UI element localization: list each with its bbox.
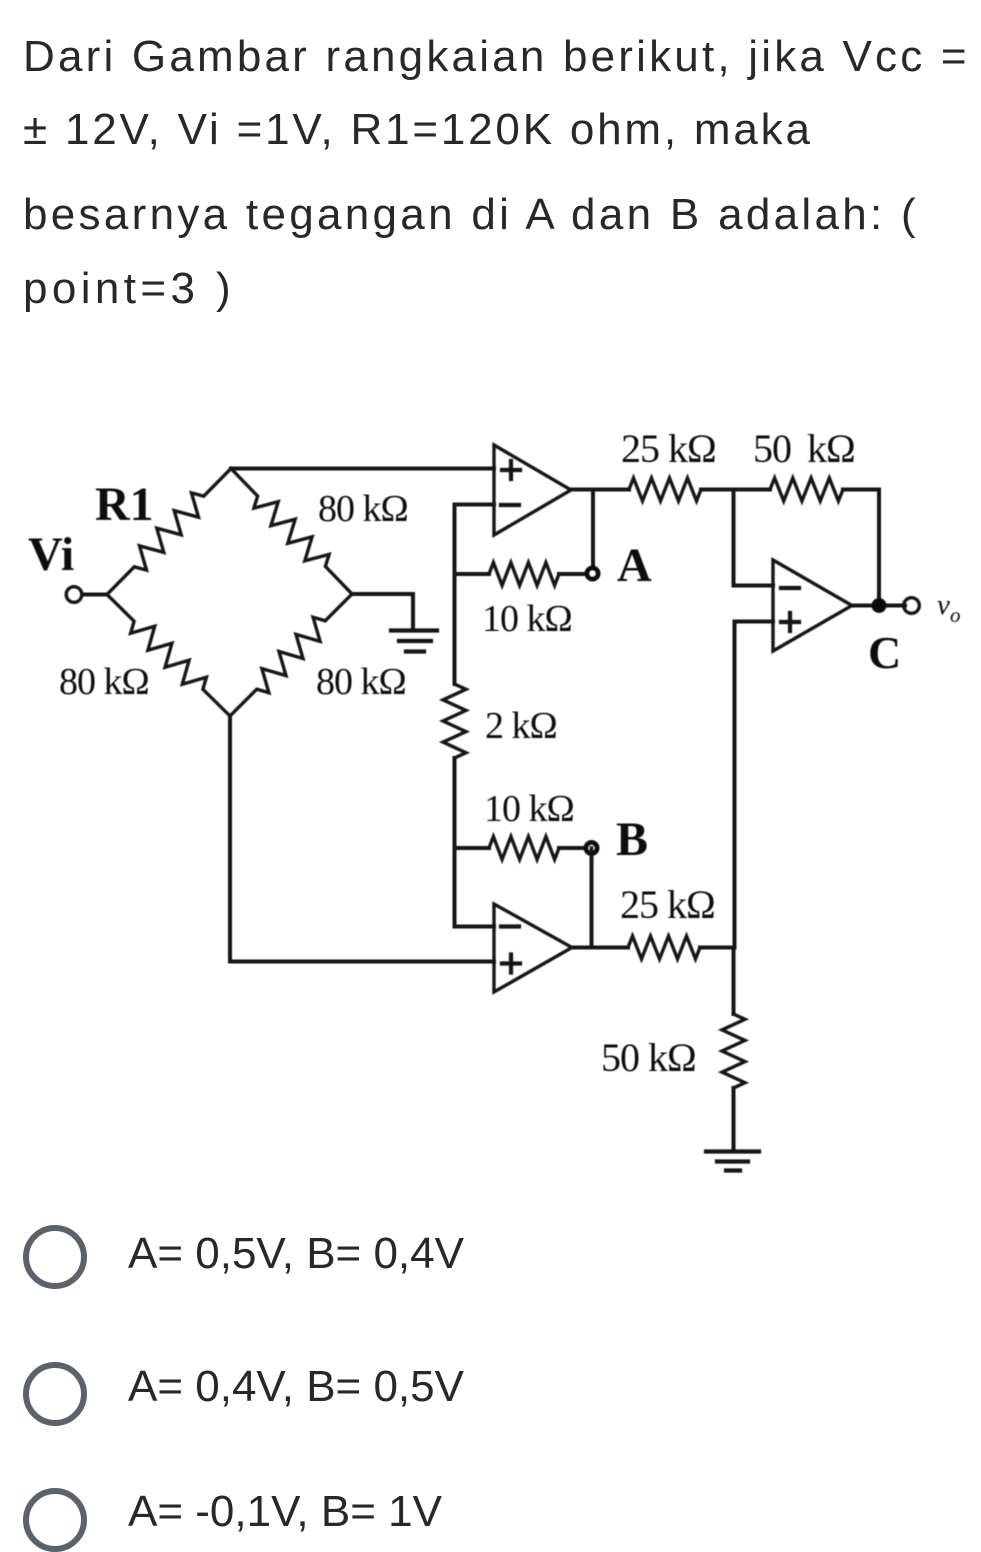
wire U3 + input down to bottom junction bbox=[735, 622, 774, 948]
U1 plus sign bbox=[502, 468, 520, 472]
input terminal Vi (open circle) bbox=[66, 587, 82, 603]
svg-text:R1: R1 bbox=[95, 478, 154, 531]
svg-text:C: C bbox=[868, 627, 901, 678]
svg-text:v: v bbox=[937, 589, 950, 621]
wire bridge top vertex to op-amp U1 + input bbox=[231, 467, 494, 471]
svg-text:25 kΩ: 25 kΩ bbox=[621, 426, 716, 471]
svg-text:B: B bbox=[616, 813, 648, 866]
wire 25k to 50k junction bbox=[701, 488, 770, 492]
U1 minus sign bbox=[501, 503, 519, 507]
U3 plus sign bbox=[781, 620, 799, 624]
svg-text:Vi: Vi bbox=[28, 528, 74, 581]
svg-text:80 kΩ: 80 kΩ bbox=[316, 661, 406, 703]
U3 minus sign bbox=[781, 586, 799, 590]
resistor 80 kOhm (bridge lower-left arm) bbox=[107, 595, 230, 717]
resistor 25 kOhm (bottom) bbox=[628, 936, 700, 959]
wire 50k to ground bbox=[732, 1088, 736, 1150]
svg-text:o: o bbox=[950, 603, 961, 627]
op-amp U3 (output stage C) bbox=[773, 560, 852, 651]
wire 2k down to 10k row B bbox=[453, 758, 457, 848]
svg-text:A: A bbox=[617, 539, 652, 592]
question line 4 bbox=[23, 264, 235, 314]
wire 10k column down to U2 - input bbox=[455, 848, 495, 927]
radio option 2 bbox=[23, 1362, 87, 1426]
wire U2 output bbox=[572, 946, 628, 950]
node B (test point) bbox=[584, 840, 600, 856]
svg-text:50 kΩ: 50 kΩ bbox=[601, 1035, 696, 1080]
wire bridge right vertex to ground bbox=[352, 594, 413, 629]
wire node B down to U2 output bbox=[590, 848, 594, 948]
resistor 80 kOhm (bridge lower-right arm) bbox=[230, 594, 352, 716]
svg-text:80 kΩ: 80 kΩ bbox=[59, 661, 149, 703]
resistor 2 kOhm (vertical) bbox=[443, 684, 466, 758]
wire U1 output down to node A bbox=[591, 490, 595, 567]
op-amp U2 (bottom buffer) bbox=[494, 904, 572, 992]
ground (bridge) bbox=[391, 628, 437, 632]
svg-text:10 kΩ: 10 kΩ bbox=[482, 598, 572, 640]
wire junction down to op-amp U3 - input bbox=[734, 490, 774, 586]
wire 50k to output node bbox=[843, 490, 879, 606]
question line 1 bbox=[23, 32, 970, 82]
wire bridge bottom vertex to U2 + input bbox=[230, 716, 494, 962]
resistor 10 kOhm (to node A) bbox=[455, 572, 490, 576]
resistor R1 (bridge upper-left arm) bbox=[107, 469, 231, 595]
radio option 3 bbox=[23, 1488, 87, 1552]
node C junction dot bbox=[872, 598, 887, 613]
question line 3 bbox=[23, 190, 919, 240]
svg-text:10 kΩ: 10 kΩ bbox=[484, 788, 574, 830]
wire 25k bottom to junction bbox=[700, 946, 735, 950]
radio option 1 bbox=[23, 1225, 87, 1289]
resistor 50 kOhm (vertical to ground) bbox=[722, 1014, 745, 1088]
op-amp U1 (top buffer) bbox=[494, 445, 571, 535]
wire Vi terminal to bridge left vertex bbox=[82, 593, 107, 597]
U2 minus sign bbox=[501, 924, 519, 928]
wire U1 - input feedback bbox=[455, 505, 495, 575]
wire junction down to 50k bbox=[732, 948, 736, 1015]
question line 2 bbox=[23, 105, 813, 155]
svg-text:2 kΩ: 2 kΩ bbox=[485, 705, 557, 747]
resistor 10 kOhm (to node B) bbox=[455, 846, 490, 850]
svg-text:80 kΩ: 80 kΩ bbox=[318, 488, 408, 530]
ground (bottom) bbox=[706, 1149, 759, 1153]
wire U1 output bbox=[571, 488, 629, 492]
svg-text:25 kΩ: 25 kΩ bbox=[620, 882, 715, 927]
node A (test point) bbox=[585, 566, 601, 582]
svg-text:50 kΩ: 50 kΩ bbox=[753, 426, 855, 471]
wire node A column down to 2k bbox=[453, 574, 457, 684]
resistor 25 kOhm (top) bbox=[629, 478, 701, 501]
resistor 80 kOhm (bridge upper-right arm) bbox=[231, 469, 352, 595]
resistor 50 kOhm (top feedback) bbox=[770, 478, 843, 501]
output terminal vo (open circle) bbox=[904, 598, 920, 614]
wire U3 output bbox=[852, 604, 905, 608]
U2 plus sign bbox=[502, 961, 520, 965]
